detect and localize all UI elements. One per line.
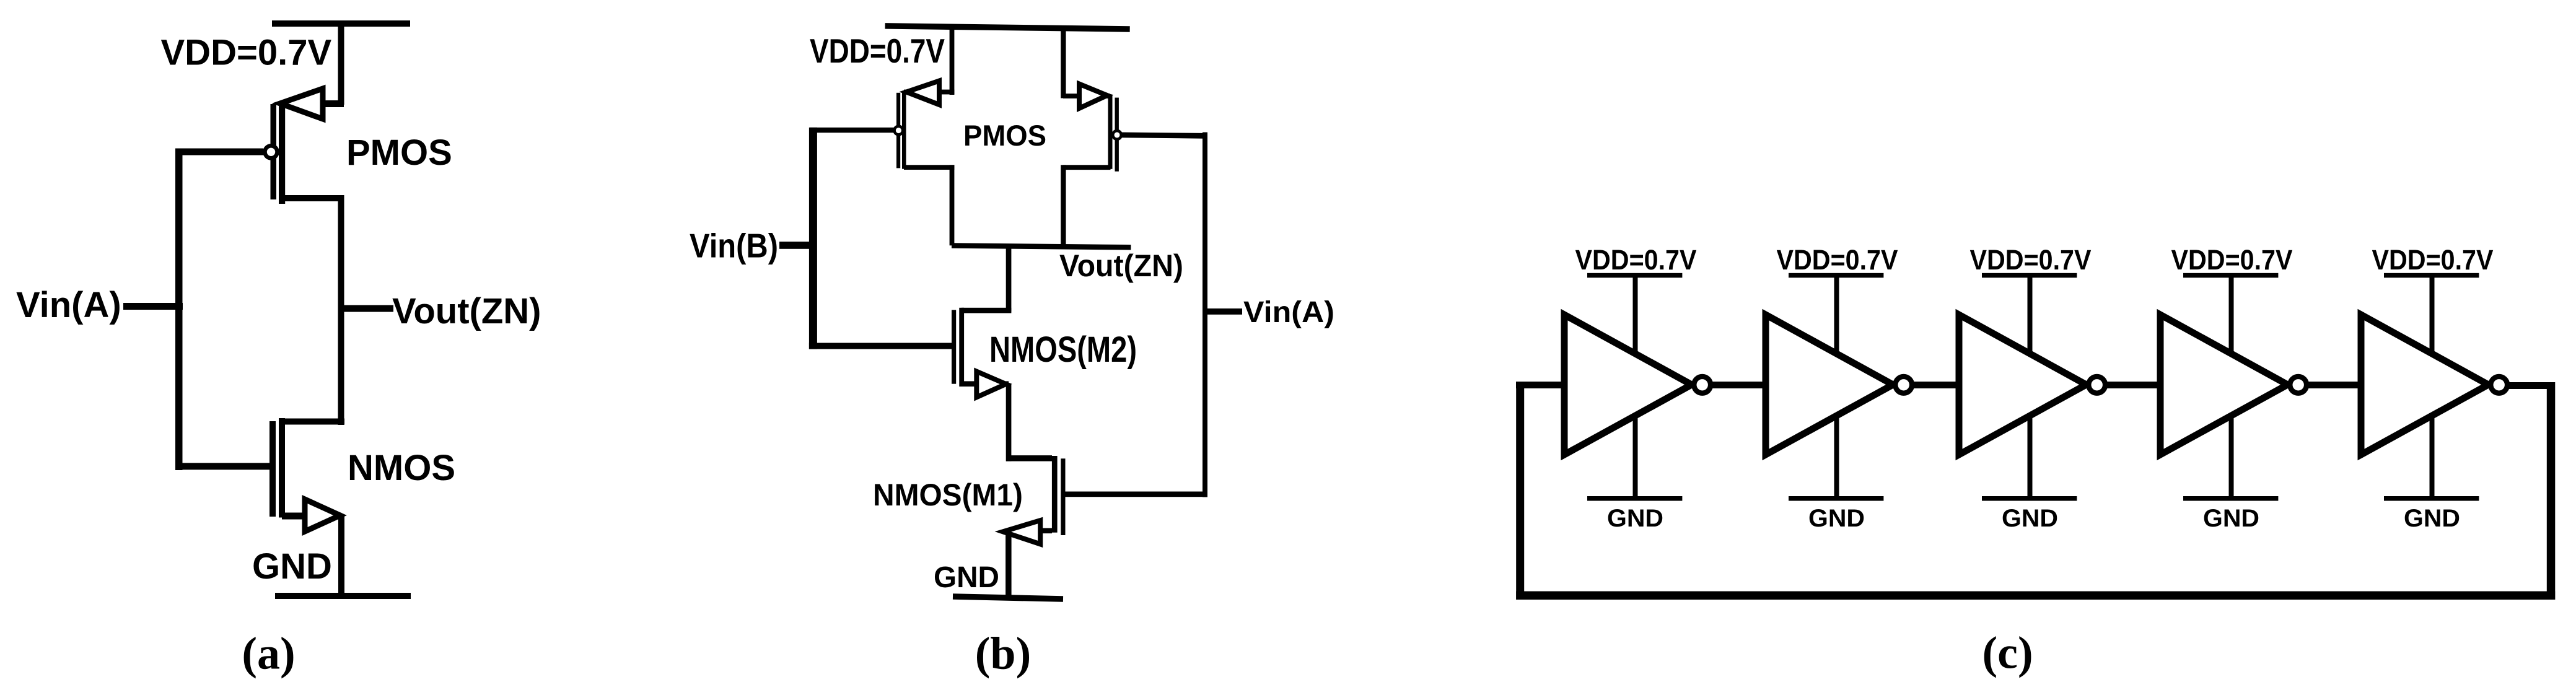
svg-text:GND: GND: [1607, 505, 1663, 532]
svg-text:VDD=0.7V: VDD=0.7V: [161, 33, 332, 73]
transistor NMOS M2 channel bar (b): [959, 308, 964, 387]
node Vin(A) label (a): [16, 285, 121, 325]
svg-text:PMOS: PMOS: [963, 119, 1046, 152]
label PMOS (a): [346, 133, 452, 173]
transistor PMOS M4 gate bar (b): [1115, 98, 1119, 172]
wire NMOS source to GND (a): [338, 516, 344, 596]
wire VDD rail (b): [885, 26, 1130, 29]
transistor NMOS M1 source arrow (b): [1003, 520, 1040, 544]
wire output bus (a): [338, 195, 344, 425]
inverter U4 VDD lead (c): [2229, 277, 2234, 356]
transistor PMOS (a) source lead: [283, 100, 344, 107]
inverter U3 VDD bar (c): [1982, 273, 2077, 278]
node Vin(A) label (b): [1243, 296, 1334, 329]
inverter U4 GND label (c): [2203, 505, 2259, 532]
transistor NMOS M2 gate bar (b): [952, 310, 956, 383]
svg-text:(b): (b): [975, 629, 1031, 680]
svg-text:VDD=0.7V: VDD=0.7V: [2171, 244, 2293, 276]
transistor PMOS (a) gate bubble: [265, 146, 278, 158]
inverter U1 VDD bar (c): [1587, 273, 1682, 278]
wire U2 output to U3 (c): [1908, 382, 1962, 388]
caption (b): [975, 629, 1031, 680]
inverter U3 GND bar (c): [1982, 496, 2077, 501]
inverter U2 GND label (c): [1808, 505, 1865, 532]
transistor PMOS M3 channel bar (b): [902, 91, 906, 169]
transistor PMOS M4 gate bubble (b): [1113, 131, 1121, 139]
ground GND rail (a): [275, 593, 411, 599]
wire M4 drain vertical (b): [1061, 165, 1066, 248]
svg-text:PMOS: PMOS: [346, 133, 452, 173]
transistor NMOS M1 gate bar (b): [1061, 458, 1065, 535]
ground GND rail (b): [953, 597, 1063, 599]
svg-text:Vout(ZN): Vout(ZN): [1059, 248, 1183, 283]
inverter U2 GND bar (c): [1789, 496, 1883, 501]
inverter U4 triangle (c): [2160, 315, 2288, 455]
svg-text:VDD=0.7V: VDD=0.7V: [810, 32, 945, 70]
wire M3 gate wire (b): [810, 128, 894, 133]
svg-text:Vin(A): Vin(A): [1243, 296, 1334, 329]
wire Vin stub (a): [123, 303, 183, 310]
wire M4 source vertical (b): [1061, 28, 1066, 98]
wire M4 gate wire (b): [1121, 135, 1205, 136]
wire output drop to M2 drain (b): [1006, 245, 1012, 312]
transistor NMOS M1 drain lead (b): [1006, 455, 1052, 461]
svg-text:Vin(B): Vin(B): [690, 227, 778, 265]
svg-text:Vin(A): Vin(A): [16, 285, 121, 325]
inverter U3 GND label (c): [2002, 505, 2058, 532]
wire Vin(A) stub (b): [1207, 308, 1242, 315]
wire M2 source vertical (b): [1006, 384, 1012, 461]
inverter U4 VDD bar (c): [2183, 273, 2278, 278]
wire U1 output to U2 (c): [1707, 382, 1769, 388]
inverter U2 VDD lead (c): [1834, 277, 1839, 356]
inverter U1 GND bar (c): [1587, 496, 1682, 501]
transistor NMOS (a) source arrow: [305, 499, 340, 531]
transistor NMOS M2 source lead (b): [962, 381, 1009, 387]
inverter U4 GND bar (c): [2183, 496, 2278, 501]
transistor NMOS (a) channel bar: [279, 418, 285, 518]
wire U4 output to U5 (c): [2303, 382, 2364, 388]
svg-text:GND: GND: [2404, 505, 2460, 532]
inverter U2 GND lead (c): [1834, 415, 1839, 499]
wire M1 source to GND (b): [1005, 531, 1012, 597]
inverter U5 VDD label (c): [2372, 244, 2494, 276]
transistor PMOS M4 source lead (b): [1063, 94, 1110, 98]
node Vout(ZN) label (b): [1059, 248, 1183, 283]
inverter U1 output bubble (c): [1694, 377, 1711, 393]
wire M3 drain vertical (b): [950, 165, 955, 245]
wire feedback left vertical (c): [1516, 382, 1524, 600]
svg-text:GND: GND: [1808, 505, 1865, 532]
svg-text:VDD=0.7V: VDD=0.7V: [2372, 244, 2494, 276]
inverter U2 VDD label (c): [1777, 244, 1898, 276]
inverter U3 VDD label (c): [1970, 244, 2092, 276]
svg-text:GND: GND: [2002, 505, 2058, 532]
wire U5 output to feedback (c): [2504, 382, 2551, 389]
wire NMOS gate wire (a): [175, 463, 269, 470]
svg-text:(a): (a): [242, 629, 295, 680]
transistor NMOS M2 drain lead (b): [962, 308, 1011, 313]
inverter U5 GND bar (c): [2384, 496, 2479, 501]
svg-text:GND: GND: [2203, 505, 2259, 532]
inverter U1 triangle (c): [1564, 315, 1692, 455]
node Vin(B) label (b): [690, 227, 778, 265]
transistor PMOS M3 gate bar (b): [896, 93, 900, 168]
inverter U1 VDD lead (c): [1633, 277, 1638, 356]
transistor PMOS M4 channel bar (b): [1108, 94, 1113, 168]
label NMOS(M1) (b): [873, 478, 1023, 512]
transistor PMOS M3 drain lead (b): [904, 165, 955, 170]
label GND (a): [252, 546, 332, 587]
wire input gate bus (a): [175, 149, 183, 471]
transistor PMOS M3 source arrow (b): [906, 81, 939, 105]
svg-text:NMOS: NMOS: [348, 448, 455, 488]
svg-text:VDD=0.7V: VDD=0.7V: [1970, 244, 2092, 276]
node Vout(ZN) label (a): [392, 291, 541, 331]
inverter U1 GND lead (c): [1633, 415, 1638, 499]
svg-text:NMOS(M1): NMOS(M1): [873, 478, 1023, 512]
transistor NMOS (a) drain lead: [282, 419, 344, 425]
label NMOS(M2) (b): [989, 330, 1137, 370]
inverter U3 GND lead (c): [2028, 415, 2033, 499]
wire M3 source vertical (b): [950, 27, 955, 95]
inverter U4 VDD label (c): [2171, 244, 2293, 276]
inverter U4 output bubble (c): [2290, 377, 2307, 393]
inverter U3 VDD lead (c): [2028, 277, 2033, 356]
wire Vin(B) stub (b): [779, 242, 813, 249]
transistor PMOS (a) source arrow: [280, 89, 323, 119]
transistor NMOS M2 source arrow (b): [976, 372, 1005, 398]
label VDD=0.7V (a): [161, 33, 332, 73]
transistor NMOS (a) gate bar: [269, 421, 276, 517]
inverter U5 VDD lead (c): [2430, 277, 2435, 356]
inverter U3 output bubble (c): [2088, 377, 2105, 393]
inverter U5 GND label (c): [2404, 505, 2460, 532]
svg-text:(c): (c): [1982, 628, 2033, 679]
transistor PMOS (a) drain lead: [283, 195, 344, 201]
svg-text:VDD=0.7V: VDD=0.7V: [1777, 244, 1898, 276]
svg-text:GND: GND: [252, 546, 332, 587]
svg-text:GND: GND: [934, 561, 999, 594]
label NMOS (a): [348, 448, 455, 488]
wire M2 gate wire (b): [809, 343, 952, 349]
inverter U5 VDD bar (c): [2384, 273, 2479, 278]
svg-text:Vout(ZN): Vout(ZN): [392, 291, 541, 331]
transistor PMOS M3 gate bubble (b): [895, 126, 903, 135]
wire Vout stub (a): [344, 305, 393, 312]
inverter U5 GND lead (c): [2430, 415, 2435, 499]
inverter U5 output bubble (c): [2491, 377, 2507, 393]
inverter U3 triangle (c): [1959, 315, 2087, 455]
transistor NMOS (a) source lead: [282, 513, 341, 520]
inverter U2 output bubble (c): [1895, 377, 1912, 393]
transistor PMOS (a) gate bar: [271, 104, 277, 199]
wire Vin(A) bus (b): [1203, 133, 1207, 497]
inverter U1 VDD label (c): [1575, 244, 1697, 276]
wire feedback right vertical (c): [2547, 382, 2556, 600]
wire U3 output to U4 (c): [2101, 382, 2163, 388]
caption (a): [242, 629, 295, 680]
transistor PMOS M3 source lead (b): [904, 90, 955, 95]
transistor PMOS (a) channel bar: [279, 102, 285, 204]
wire VDD drop to PMOS source (a): [338, 24, 344, 105]
svg-text:VDD=0.7V: VDD=0.7V: [1575, 244, 1697, 276]
transistor NMOS M1 channel bar (b): [1052, 456, 1058, 533]
wire M1 gate wire (b): [1066, 492, 1203, 497]
wire VDD rail (a): [272, 20, 410, 27]
transistor PMOS M4 drain lead (b): [1063, 165, 1111, 170]
label PMOS (b): [963, 119, 1046, 152]
inverter U1 GND label (c): [1607, 505, 1663, 532]
svg-text:NMOS(M2): NMOS(M2): [989, 330, 1137, 370]
inverter U5 triangle (c): [2361, 315, 2489, 455]
caption (c): [1982, 628, 2033, 679]
wire feedback bottom (c): [1516, 592, 2555, 600]
transistor NMOS M1 source lead (b): [1009, 528, 1052, 534]
inverter U4 GND lead (c): [2229, 415, 2234, 499]
inverter U2 triangle (c): [1766, 315, 1893, 455]
wire PMOS gate wire (a): [175, 149, 263, 155]
transistor PMOS M4 source arrow (b): [1079, 84, 1107, 108]
wire Vin(B) bus (b): [809, 128, 817, 349]
label VDD=0.7V (b): [810, 32, 945, 70]
wire output bar (b): [952, 246, 1131, 248]
inverter U2 VDD bar (c): [1789, 273, 1883, 278]
wire ring input (c): [1516, 382, 1568, 388]
label GND (b): [934, 561, 999, 594]
